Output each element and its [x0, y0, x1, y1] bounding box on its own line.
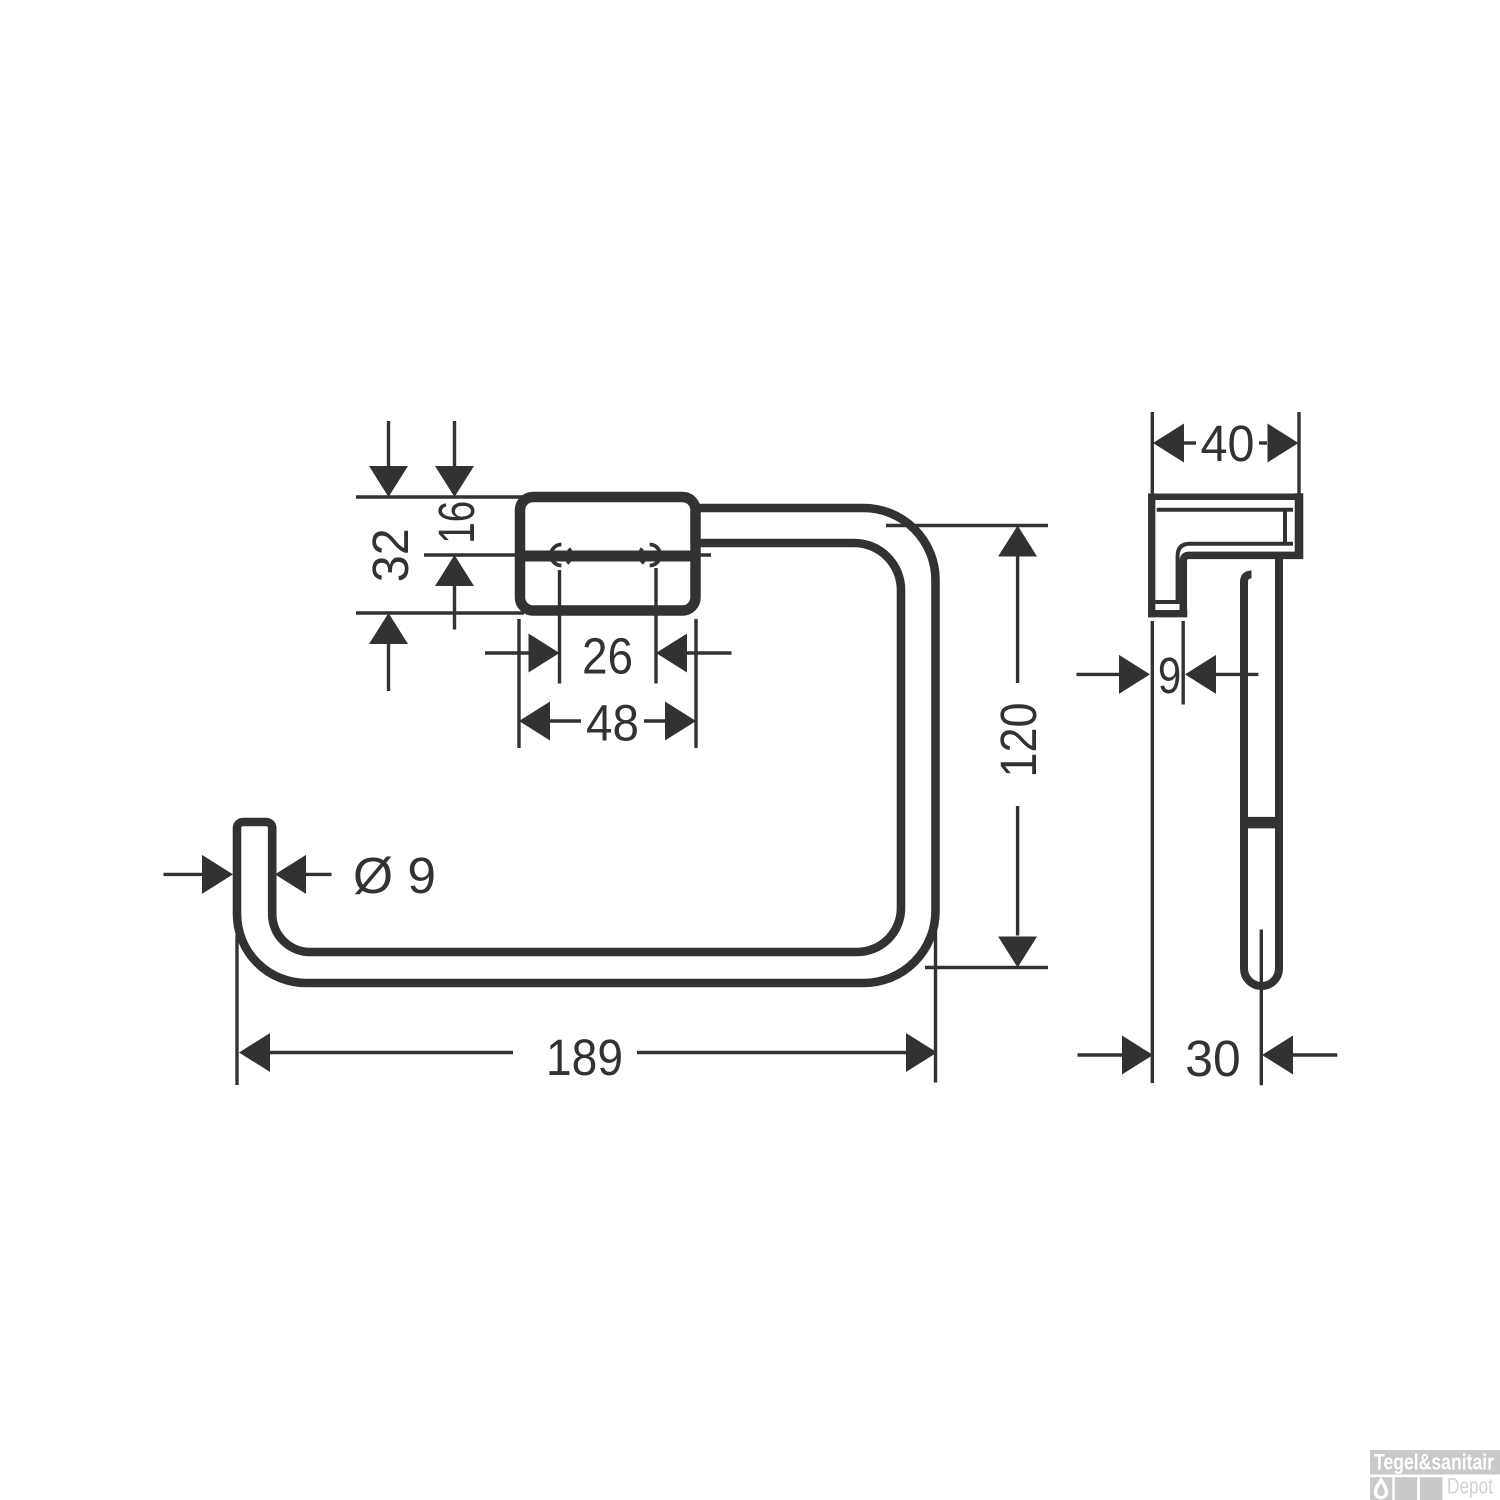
svg-text:16: 16: [428, 501, 485, 544]
svg-text:26: 26: [582, 628, 633, 685]
svg-text:189: 189: [546, 1029, 623, 1086]
svg-text:40: 40: [1201, 415, 1255, 472]
svg-text:32: 32: [362, 528, 419, 582]
svg-text:Ø 9: Ø 9: [353, 847, 436, 904]
svg-text:30: 30: [1185, 1030, 1240, 1087]
svg-text:48: 48: [586, 695, 639, 752]
svg-text:Tegel&sanitair: Tegel&sanitair: [1374, 1450, 1494, 1475]
svg-text:9: 9: [1158, 647, 1181, 704]
svg-text:120: 120: [990, 703, 1047, 778]
svg-text:Depot: Depot: [1447, 1474, 1493, 1499]
